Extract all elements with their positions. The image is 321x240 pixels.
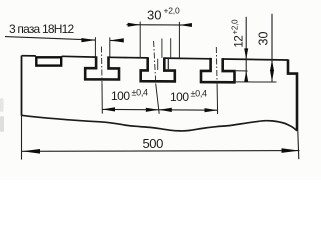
arrowhead 12 lower (below step, pointing up) xyxy=(244,71,248,82)
svg-text:3 паза 18Н12: 3 паза 18Н12 xyxy=(9,22,74,36)
centerline slot 2 extension below xyxy=(156,85,159,114)
T-slot 2 outline xyxy=(141,57,175,81)
top surface line segment 1a (left edge to groove) xyxy=(22,55,36,57)
arrowhead 500 left xyxy=(22,149,40,154)
centerline slot 1 (dash-dot) xyxy=(101,47,104,85)
ghost of slot 2 throat right edge xyxy=(167,59,169,70)
extra scan line above slot 2 throat (right) xyxy=(170,38,172,58)
svg-text:±0,4: ±0,4 xyxy=(132,88,149,98)
centerline slot 3 extension below xyxy=(216,85,219,114)
extension line slot2 cavity left (for 30 dim) xyxy=(139,22,141,58)
centerline slot 2 (dash-dot) xyxy=(154,41,156,85)
extra scan line inside slot 2 throat xyxy=(157,59,159,70)
svg-text:±0,4: ±0,4 xyxy=(191,89,208,99)
dimension line 30 right (vertical) xyxy=(271,14,273,82)
step level extension line (right of slot 3, for 12 dim) xyxy=(236,70,248,72)
arrowhead 30 right lower (pointing down at bottom level) xyxy=(270,71,274,82)
arrowhead 18H12 left (outside, pointing right) xyxy=(81,38,95,42)
shallow rectangular groove near left xyxy=(36,57,61,65)
extension line slot1 throat left xyxy=(94,37,96,57)
top surface line segment 3 (slot 2 to slot 3) xyxy=(164,57,210,60)
top surface line segment 4 (slot 3 to right step) xyxy=(223,59,288,60)
svg-text:500: 500 xyxy=(142,136,163,151)
svg-text:+2,0: +2,0 xyxy=(231,19,240,35)
dimension line 12+2,0 (vertical) xyxy=(245,17,247,82)
arrowhead 100 left at slot1 centerline xyxy=(102,107,115,111)
dimension line 500 xyxy=(22,150,300,153)
svg-text:100: 100 xyxy=(170,90,189,104)
bottom level extension line (right of slot 3, for 30 dim) xyxy=(236,81,277,83)
dimension line 100 (both spans) xyxy=(102,108,218,111)
18H12 dimension line right part xyxy=(110,39,124,42)
arrowhead 30 top left (outside, pointing right) xyxy=(128,23,141,27)
T-slot 3 outline xyxy=(201,58,235,82)
centerline slot 1 extension below xyxy=(101,84,103,114)
arrowhead 30 right upper (below surface, pointing up) xyxy=(270,60,274,71)
svg-text:100: 100 xyxy=(111,89,130,103)
arrowhead 12 upper (above surface, pointing down) xyxy=(244,48,248,59)
svg-text:30: 30 xyxy=(147,8,161,23)
leader/shelf line for slot label (18H12 dimension line left part) xyxy=(5,37,95,41)
extension line slot1 throat right xyxy=(109,37,111,57)
svg-text:30: 30 xyxy=(257,32,271,46)
arrowhead 18H12 right (outside, pointing left) xyxy=(110,38,124,42)
arrowhead 30 top right (outside, pointing left) xyxy=(179,23,192,27)
scan smudge left margin xyxy=(0,98,4,112)
right stepped edge of table xyxy=(288,59,297,130)
svg-text:+2,0: +2,0 xyxy=(164,6,180,16)
extension line below right edge (for 500 dim) xyxy=(298,131,299,160)
left edge of table xyxy=(21,56,23,116)
T-slot 1 outline xyxy=(85,56,119,79)
extension line below left edge (for 500 dim) xyxy=(21,115,23,160)
arrowhead 100 right at slot3 centerline xyxy=(205,108,218,112)
wavy break line (bottom of partial view) xyxy=(22,115,298,131)
top surface line segment 2 (slot 1 to slot 2) xyxy=(108,56,147,59)
dimension line 30 (top) xyxy=(127,24,193,26)
svg-text:12: 12 xyxy=(234,36,246,48)
arrowheads 100 middle at slot2 centerline xyxy=(146,108,159,112)
centerline slot 3 (dash-dot) xyxy=(215,47,218,85)
arrowhead 500 right xyxy=(282,148,300,153)
extra scan line above slot 2 throat (left) xyxy=(161,39,163,58)
extension line slot2 cavity right (for 30 dim) xyxy=(178,22,180,58)
top surface line segment 1b (groove to slot 1 opening) xyxy=(62,55,96,58)
